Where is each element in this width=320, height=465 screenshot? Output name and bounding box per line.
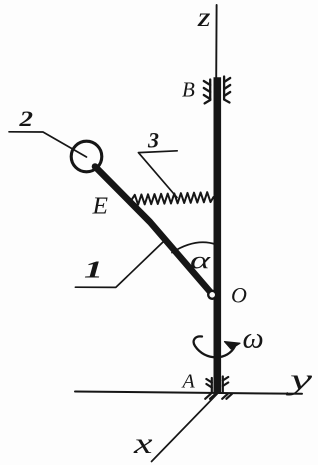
node B bearing hatch left [204,80,210,104]
node O pivot circle [208,291,216,299]
svg-text:α: α [190,248,211,275]
angle alpha arc [172,242,216,252]
svg-text:B: B [182,78,195,102]
svg-text:O: O [231,283,247,308]
node B bearing hatch right [224,77,230,103]
svg-text:Z: Z [196,10,211,31]
ball 2 [71,141,102,172]
wire: thick vertical shaft B to A [214,77,222,393]
node A support hatch left [205,378,215,399]
leader line for label 2 [9,132,87,157]
svg-text:y: y [285,363,313,396]
y axis [75,392,302,394]
svg-text:x: x [133,427,154,460]
omega rotation arrow [194,336,235,357]
svg-text:2: 2 [18,106,33,131]
leader line for label 3 [138,151,177,198]
svg-text:1: 1 [84,258,103,284]
svg-text:3: 3 [147,128,159,153]
svg-text:E: E [91,194,108,220]
svg-text:A: A [181,371,196,393]
svg-text:ω: ω [243,322,264,355]
node A support hatch right [222,377,232,399]
spring 3 [129,192,214,205]
leader line for label 1 [75,242,163,287]
x axis [152,394,218,462]
wire: thin Z-axis line above B [215,5,217,79]
rod 1 [95,167,212,295]
